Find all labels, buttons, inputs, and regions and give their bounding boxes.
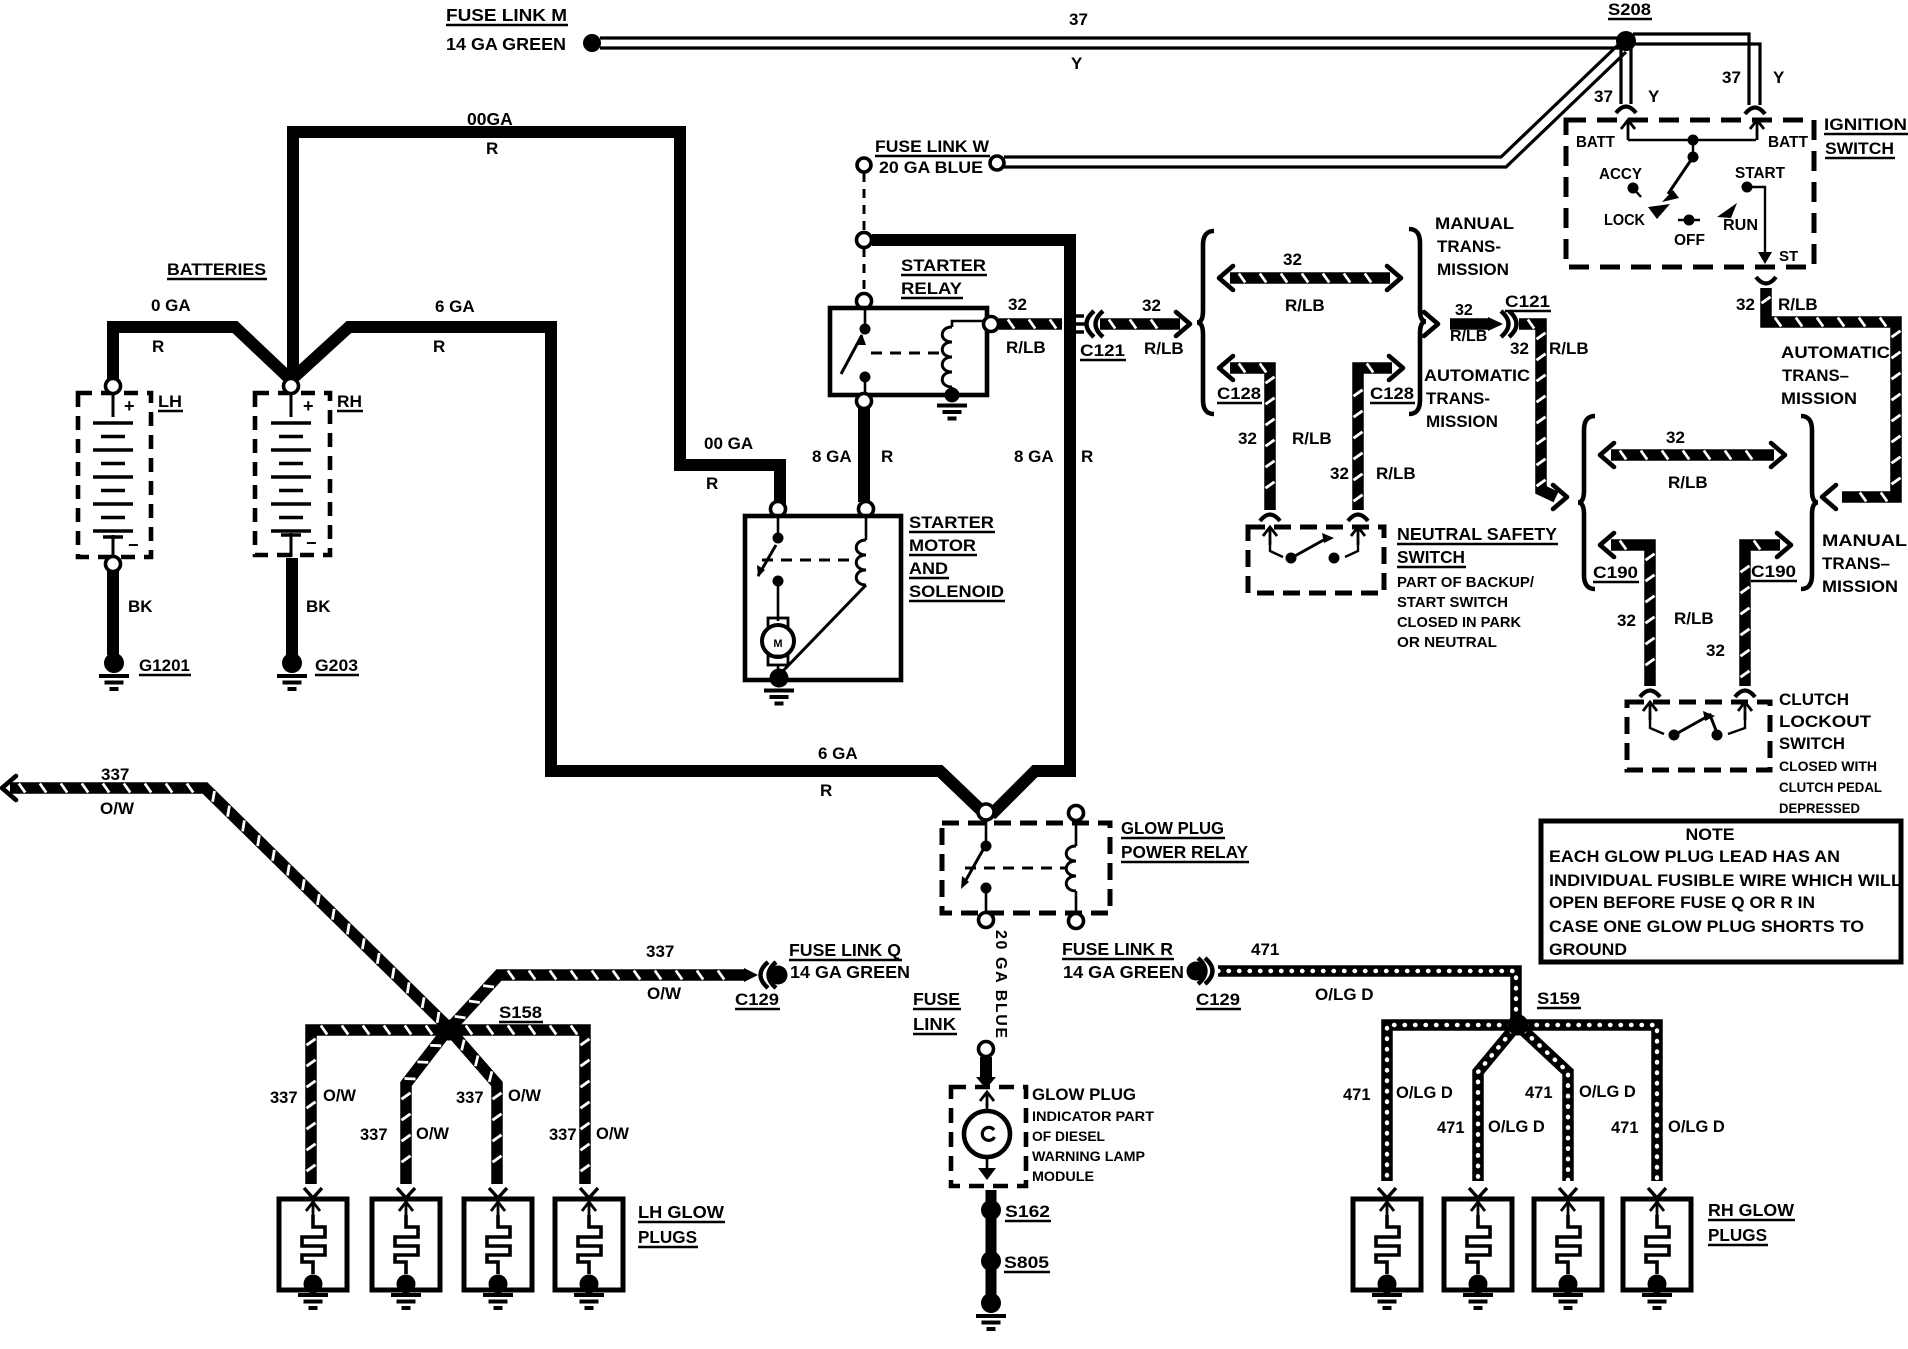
wire 337 to LH glow plug 4	[457, 1030, 585, 1184]
svg-text:EACH GLOW PLUG LEAD HAS AN: EACH GLOW PLUG LEAD HAS AN	[1549, 848, 1840, 866]
starter relay coil	[942, 327, 952, 387]
wire 471 to RH glow plug 1	[1387, 1025, 1510, 1181]
svg-text:PART OF BACKUP/: PART OF BACKUP/	[1397, 574, 1535, 591]
svg-text:S162: S162	[1005, 1202, 1050, 1221]
connector C128 right at neutral safety switch	[1348, 515, 1368, 522]
wire 337 O/W from S158 to fuse link Q	[452, 975, 744, 1026]
LOCK contact wedge	[1648, 204, 1670, 219]
svg-text:0 GA: 0 GA	[151, 296, 191, 315]
svg-text:37: 37	[1722, 68, 1741, 87]
svg-text:R/LB: R/LB	[1674, 609, 1714, 628]
wire 32 R/LB C128 left stub	[1219, 356, 1233, 380]
ground G1201	[104, 653, 124, 673]
glow plug power relay coil	[1075, 820, 1078, 846]
svg-text:TRANS-: TRANS-	[1426, 389, 1490, 408]
svg-text:R/LB: R/LB	[1668, 473, 1708, 492]
starter motor ground	[770, 669, 789, 688]
svg-text:32: 32	[1666, 428, 1685, 447]
svg-text:32: 32	[1008, 295, 1027, 314]
ignition switch BATT right terminal arrow	[1756, 120, 1759, 140]
svg-text:MISSION: MISSION	[1781, 389, 1857, 408]
svg-text:G1201: G1201	[139, 656, 190, 675]
glow plug power relay box	[942, 823, 1110, 913]
svg-text:MODULE: MODULE	[1032, 1169, 1094, 1184]
svg-text:8 GA: 8 GA	[812, 447, 852, 466]
connector at ignition switch BATT left	[1616, 107, 1636, 114]
wire 32 R/LB C128 right stub	[1358, 368, 1392, 510]
glow plug power relay switch	[985, 820, 988, 842]
splice S805	[981, 1251, 1001, 1271]
fuse link Q terminal dot	[769, 966, 788, 985]
LH battery	[78, 393, 151, 557]
wire 471 to RH glow plug 3	[1524, 1031, 1568, 1181]
svg-text:LH: LH	[158, 392, 182, 411]
svg-text:R/LB: R/LB	[1006, 338, 1046, 357]
svg-text:BK: BK	[306, 597, 331, 616]
svg-text:C129: C129	[735, 990, 779, 1009]
fuse link W left terminal circle	[857, 158, 871, 172]
splice S158	[439, 1020, 460, 1041]
svg-text:DEPRESSED: DEPRESSED	[1779, 800, 1860, 816]
svg-text:S208: S208	[1608, 0, 1651, 19]
connector C190 left at clutch lockout switch	[1640, 691, 1660, 698]
clutch lockout switch contacts	[1650, 716, 1664, 734]
connector C128 left at neutral safety switch	[1260, 515, 1280, 522]
junction circle at 8 GA wire	[857, 233, 872, 248]
svg-text:MOTOR: MOTOR	[909, 536, 976, 555]
svg-text:R: R	[706, 474, 718, 493]
svg-text:O/W: O/W	[416, 1125, 449, 1143]
svg-text:BK: BK	[128, 597, 153, 616]
glow plug power relay bottom-right terminal	[1069, 914, 1084, 929]
svg-text:RH: RH	[337, 392, 362, 411]
svg-text:INDIVIDUAL FUSIBLE WIRE WHICH: INDIVIDUAL FUSIBLE WIRE WHICH WILL	[1549, 872, 1902, 890]
svg-text:CLOSED WITH: CLOSED WITH	[1779, 758, 1877, 774]
svg-text:C121: C121	[1080, 341, 1125, 360]
wire 32 R/LB from group 1 to C121 right	[1424, 312, 1438, 336]
svg-text:FUSE: FUSE	[913, 989, 960, 1009]
svg-text:O/LG D: O/LG D	[1488, 1118, 1545, 1136]
svg-text:337: 337	[646, 942, 674, 961]
brace right of transmission wire group 1	[1409, 229, 1426, 414]
svg-text:8 GA: 8 GA	[1014, 447, 1054, 466]
svg-text:32: 32	[1736, 295, 1755, 314]
ignition switch internal batt bus	[1628, 139, 1756, 141]
svg-text:S805: S805	[1004, 1253, 1049, 1272]
svg-text:NEUTRAL SAFETY: NEUTRAL SAFETY	[1397, 524, 1557, 544]
svg-text:R: R	[881, 447, 893, 466]
wire 32 R/LB C190 left stub	[1600, 533, 1614, 557]
wire 471 O/LG D from fuse link R to splice S159	[1218, 971, 1516, 1019]
svg-text:PLUGS: PLUGS	[638, 1227, 697, 1247]
wire BK from RH battery to ground G203	[286, 558, 298, 655]
wire 37 Y from fuse link M to splice S208 (double line)	[600, 36, 1621, 39]
svg-text:14 GA GREEN: 14 GA GREEN	[1063, 962, 1184, 982]
wire 32 R/LB manual transmission (group 1 top)	[1219, 266, 1233, 290]
wire 32 R/LB from C121 to manual/automatic transmission group	[1100, 318, 1180, 330]
glow plug indicator entry arrow	[986, 1092, 989, 1107]
svg-text:R: R	[486, 139, 498, 158]
svg-text:32: 32	[1617, 611, 1636, 630]
svg-text:INDICATOR PART: INDICATOR PART	[1032, 1109, 1155, 1124]
svg-text:MISSION: MISSION	[1426, 412, 1498, 431]
svg-text:FUSE LINK R: FUSE LINK R	[1062, 939, 1173, 959]
svg-text:337: 337	[101, 765, 129, 784]
brace left of transmission wire group 2	[1578, 416, 1595, 589]
svg-text:MISSION: MISSION	[1437, 260, 1509, 279]
brace right of transmission wire group 2	[1801, 416, 1818, 589]
svg-text:OF DIESEL: OF DIESEL	[1032, 1129, 1105, 1144]
wire 37 Y from S208 to ignition switch BATT right (double line)	[1633, 34, 1749, 105]
svg-text:471: 471	[1251, 940, 1279, 959]
splice S162	[981, 1200, 1001, 1220]
svg-text:RUN: RUN	[1723, 217, 1758, 234]
dashed lead below fuse link W	[863, 173, 866, 232]
svg-text:MANUAL: MANUAL	[1822, 531, 1907, 550]
wire from fuse link to glow plug indicator	[980, 1057, 992, 1078]
starter relay bottom terminal	[857, 394, 872, 409]
glow plug power relay dashed link	[965, 867, 1066, 870]
wire BK from LH battery to ground G1201	[107, 571, 119, 655]
wire 00 GA R from batteries to starter motor	[293, 132, 780, 504]
glow plug power relay top-right terminal	[1069, 806, 1084, 821]
RH battery	[255, 393, 330, 555]
svg-text:POWER RELAY: POWER RELAY	[1121, 842, 1248, 862]
svg-text:Y: Y	[1071, 54, 1083, 73]
LH glow plug 2	[372, 1199, 440, 1290]
svg-text:O/LG D: O/LG D	[1396, 1084, 1453, 1102]
svg-text:Y: Y	[1648, 87, 1660, 106]
svg-text:SWITCH: SWITCH	[1825, 139, 1894, 158]
svg-text:32: 32	[1283, 250, 1302, 269]
svg-text:32: 32	[1142, 296, 1161, 315]
svg-text:6 GA: 6 GA	[435, 297, 475, 316]
wire 337 to LH glow plug 3	[455, 1036, 497, 1184]
svg-text:471: 471	[1437, 1119, 1465, 1137]
svg-text:R: R	[820, 781, 832, 800]
svg-text:337: 337	[360, 1126, 388, 1144]
wire 6 GA R from RH battery to glow plug power relay	[291, 327, 986, 815]
svg-text:C128: C128	[1370, 384, 1414, 403]
svg-text:337: 337	[456, 1089, 484, 1107]
wire 471 to RH glow plug 4	[1526, 1025, 1657, 1181]
svg-text:O/W: O/W	[596, 1125, 629, 1143]
wire 32 R/LB C190 right stub	[1745, 545, 1780, 686]
svg-text:R/LB: R/LB	[1144, 339, 1184, 358]
svg-text:O/W: O/W	[508, 1087, 541, 1105]
svg-text:ACCY: ACCY	[1599, 166, 1642, 183]
svg-text:NOTE: NOTE	[1686, 825, 1735, 844]
connector ST below ignition switch	[1756, 277, 1776, 284]
svg-text:32: 32	[1238, 429, 1257, 448]
starter relay input terminal	[857, 294, 872, 309]
svg-text:471: 471	[1525, 1084, 1553, 1102]
svg-text:C121: C121	[1505, 292, 1550, 311]
starter relay output terminal to 32 R/LB	[984, 317, 999, 332]
svg-text:32: 32	[1330, 464, 1349, 483]
svg-text:O/W: O/W	[323, 1087, 356, 1105]
svg-text:O/W: O/W	[647, 984, 682, 1003]
neutral safety switch box	[1248, 527, 1384, 593]
LH battery positive terminal	[106, 379, 121, 394]
connector C129 left	[744, 968, 758, 982]
svg-text:C190: C190	[1751, 562, 1796, 581]
svg-text:−: −	[306, 533, 317, 553]
svg-text:+: +	[124, 396, 135, 416]
svg-text:S158: S158	[499, 1003, 542, 1022]
svg-text:R/LB: R/LB	[1778, 295, 1818, 314]
svg-text:R/LB: R/LB	[1292, 429, 1332, 448]
splice S159	[1508, 1015, 1529, 1036]
svg-text:MANUAL: MANUAL	[1435, 214, 1514, 233]
fuse link R terminal dot	[1187, 962, 1206, 981]
svg-text:14 GA GREEN: 14 GA GREEN	[446, 34, 566, 54]
svg-text:471: 471	[1611, 1119, 1639, 1137]
connector C121 left	[1064, 316, 1086, 332]
RH glow plug 1	[1353, 1199, 1421, 1290]
svg-text:G203: G203	[315, 656, 358, 675]
svg-text:+: +	[303, 396, 314, 416]
ground G203	[282, 653, 302, 673]
brace left of transmission wire group 1	[1197, 231, 1214, 414]
svg-text:O/LG D: O/LG D	[1315, 985, 1374, 1004]
svg-text:BATT: BATT	[1768, 134, 1808, 151]
starter motor dashed link	[762, 559, 856, 562]
note box	[1541, 821, 1901, 962]
connector C190 right at clutch lockout switch	[1735, 691, 1755, 698]
svg-text:BATTERIES: BATTERIES	[167, 260, 266, 279]
svg-text:OPEN BEFORE FUSE Q OR R IN: OPEN BEFORE FUSE Q OR R IN	[1549, 894, 1815, 912]
starter motor box	[745, 516, 901, 680]
svg-text:FUSE LINK M: FUSE LINK M	[446, 5, 567, 25]
wire 32 R/LB (group 2 top)	[1600, 443, 1614, 467]
svg-text:37: 37	[1069, 10, 1088, 29]
svg-text:C190: C190	[1593, 563, 1638, 582]
RH glow plug 4	[1623, 1199, 1691, 1290]
svg-text:OR NEUTRAL: OR NEUTRAL	[1397, 634, 1497, 651]
svg-text:M: M	[773, 638, 782, 650]
svg-text:C128: C128	[1217, 384, 1261, 403]
ground below S805	[981, 1293, 1001, 1313]
svg-text:32: 32	[1510, 339, 1529, 358]
svg-text:CLUTCH PEDAL: CLUTCH PEDAL	[1779, 779, 1882, 795]
svg-text:PLUGS: PLUGS	[1708, 1225, 1767, 1245]
svg-text:GLOW PLUG: GLOW PLUG	[1121, 818, 1224, 838]
svg-text:FUSE LINK Q: FUSE LINK Q	[789, 940, 901, 960]
wire 8 GA R from fuse link W junction to glow plug power relay	[872, 240, 1070, 815]
svg-text:R: R	[1081, 447, 1093, 466]
svg-text:ST: ST	[1779, 248, 1798, 265]
LH battery negative terminal	[106, 557, 121, 572]
svg-text:CLUTCH: CLUTCH	[1779, 690, 1849, 709]
fuse link W right terminal circle	[990, 156, 1004, 170]
RH battery positive terminal	[284, 379, 299, 394]
wire 32 R/LB from starter relay to C121	[999, 318, 1062, 330]
svg-text:SWITCH: SWITCH	[1397, 547, 1465, 567]
ignition switch rotor	[1668, 157, 1693, 194]
glow plug indicator box	[951, 1087, 1026, 1186]
svg-text:337: 337	[270, 1089, 298, 1107]
wire 8 GA R from starter relay to starter motor solenoid	[858, 408, 870, 502]
wire 32 R/LB from C121 down to group 2	[1519, 324, 1556, 497]
svg-text:TRANS–: TRANS–	[1782, 366, 1849, 385]
fuse link circle at 20 GA BLUE	[979, 1042, 994, 1057]
svg-text:00 GA: 00 GA	[704, 434, 753, 453]
starter motor terminal right	[859, 502, 874, 517]
svg-text:R/LB: R/LB	[1450, 328, 1487, 345]
wire 471 to RH glow plug 2	[1478, 1031, 1512, 1181]
svg-text:TRANS–: TRANS–	[1822, 554, 1890, 573]
svg-text:R/LB: R/LB	[1285, 296, 1325, 315]
svg-text:BATT: BATT	[1576, 134, 1615, 151]
LH glow plug 4	[555, 1199, 623, 1290]
wire 337 to LH glow plug 2	[406, 1036, 443, 1184]
svg-text:RELAY: RELAY	[901, 279, 963, 298]
svg-text:LH GLOW: LH GLOW	[638, 1202, 724, 1222]
svg-text:AND: AND	[909, 559, 948, 578]
svg-text:STARTER: STARTER	[909, 513, 994, 532]
svg-text:FUSE LINK W: FUSE LINK W	[875, 137, 990, 156]
starter motor terminal left	[771, 502, 786, 517]
svg-text:START: START	[1735, 165, 1785, 182]
svg-text:MISSION: MISSION	[1822, 577, 1898, 596]
wire 337 to LH glow plug 1	[311, 1030, 441, 1184]
svg-text:GROUND: GROUND	[1549, 941, 1627, 959]
svg-text:RH GLOW: RH GLOW	[1708, 1200, 1794, 1220]
LH glow plug 1	[279, 1199, 347, 1290]
svg-text:CLOSED IN PARK: CLOSED IN PARK	[1397, 614, 1521, 631]
svg-text:STARTER: STARTER	[901, 256, 986, 275]
svg-text:LOCK: LOCK	[1604, 212, 1645, 229]
ignition switch box	[1566, 120, 1814, 267]
solenoid-to-ground diagonal	[781, 585, 866, 673]
wire 37 Y diagonal from S208 to fuse link W row (double line)	[1004, 45, 1618, 157]
svg-text:AUTOMATIC: AUTOMATIC	[1781, 343, 1890, 362]
wire from indicator to ground	[986, 1190, 997, 1300]
solenoid coil	[865, 516, 868, 540]
wire 37 Y from S208 down to ignition switch BATT left (double line)	[1619, 47, 1622, 104]
svg-text:S159: S159	[1537, 989, 1580, 1008]
neutral safety switch terminal arrows	[1269, 527, 1272, 545]
svg-text:R/LB: R/LB	[1376, 464, 1416, 483]
svg-text:20 GA BLUE: 20 GA BLUE	[879, 158, 983, 177]
svg-text:O/W: O/W	[100, 799, 135, 818]
dashed lead from fuse link W to starter relay	[863, 248, 866, 295]
ignition switch BATT left terminal arrow	[1627, 120, 1630, 140]
svg-text:O/LG D: O/LG D	[1579, 1083, 1636, 1101]
svg-text:R: R	[433, 337, 445, 356]
svg-text:AUTOMATIC: AUTOMATIC	[1424, 366, 1530, 385]
clutch lockout switch terminal arrows	[1649, 702, 1652, 720]
wire 32 R/LB from ignition ST to automatic transmission group 2	[1766, 288, 1896, 497]
svg-text:IGNITION: IGNITION	[1824, 115, 1907, 134]
svg-text:GLOW PLUG: GLOW PLUG	[1032, 1086, 1136, 1104]
svg-text:TRANS-: TRANS-	[1437, 237, 1501, 256]
svg-text:14 GA GREEN: 14 GA GREEN	[790, 962, 910, 982]
svg-text:OFF: OFF	[1674, 232, 1705, 249]
starter relay coil ground	[945, 388, 960, 403]
starter relay dashed link	[871, 352, 944, 355]
connector C121 right	[1488, 317, 1503, 331]
svg-text:START SWITCH: START SWITCH	[1397, 594, 1508, 611]
svg-text:SWITCH: SWITCH	[1779, 734, 1845, 753]
svg-text:32: 32	[1455, 302, 1473, 319]
clutch lockout switch box	[1627, 702, 1770, 770]
svg-text:R: R	[152, 337, 164, 356]
motor M	[768, 618, 788, 627]
glow plug power relay top-left terminal	[978, 804, 994, 820]
svg-text:LOCKOUT: LOCKOUT	[1779, 712, 1872, 731]
LH glow plug 3	[464, 1199, 532, 1290]
connector C129 right	[1198, 958, 1206, 984]
starter relay box	[830, 308, 987, 395]
svg-text:−: −	[128, 535, 139, 555]
svg-text:32: 32	[1706, 641, 1725, 660]
svg-text:471: 471	[1343, 1086, 1371, 1104]
svg-text:37: 37	[1594, 87, 1613, 106]
fuse link M terminal dot	[583, 34, 601, 52]
glow plug power relay bottom-left terminal	[979, 913, 994, 928]
svg-text:O/LG D: O/LG D	[1668, 1118, 1725, 1136]
svg-text:SOLENOID: SOLENOID	[909, 582, 1004, 601]
svg-text:20 GA BLUE: 20 GA BLUE	[992, 930, 1009, 1040]
svg-text:00GA: 00GA	[467, 109, 513, 129]
neutral safety switch contacts	[1270, 541, 1283, 557]
RH glow plug 3	[1534, 1199, 1602, 1290]
svg-text:LINK: LINK	[913, 1014, 956, 1034]
svg-text:Y: Y	[1773, 68, 1785, 87]
glow plug indicator lamp	[986, 1104, 989, 1112]
svg-text:337: 337	[549, 1126, 577, 1144]
svg-text:C129: C129	[1196, 990, 1240, 1009]
wire 337 O/W from left edge to splice S158	[2, 776, 16, 800]
connector at ignition switch BATT right	[1745, 108, 1765, 115]
starter relay switch	[860, 324, 871, 335]
svg-text:6 GA: 6 GA	[818, 744, 858, 763]
starter motor switch	[777, 516, 780, 534]
svg-text:CASE ONE GLOW PLUG SHORTS TO: CASE ONE GLOW PLUG SHORTS TO	[1549, 918, 1864, 936]
RH glow plug 2	[1444, 1199, 1512, 1290]
svg-text:R/LB: R/LB	[1549, 339, 1589, 358]
svg-text:WARNING LAMP: WARNING LAMP	[1032, 1149, 1145, 1164]
wire 0 GA R from LH battery	[113, 327, 291, 381]
